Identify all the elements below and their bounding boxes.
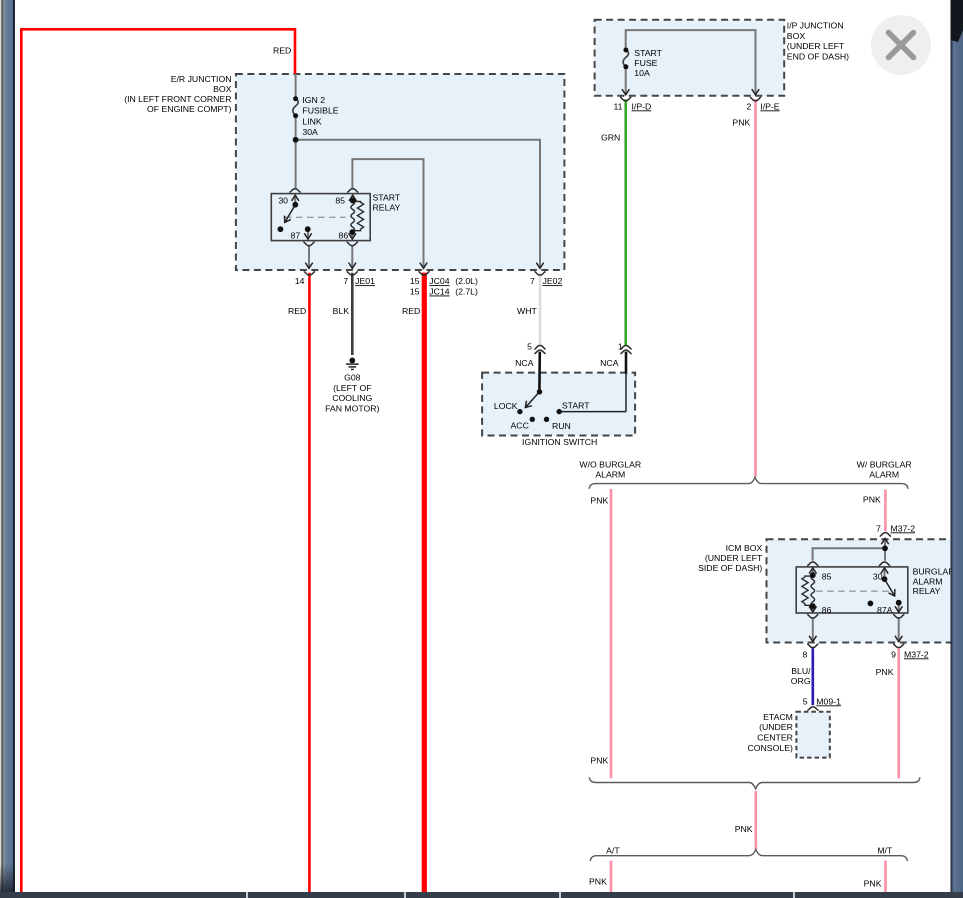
svg-text:85: 85 <box>822 571 832 581</box>
svg-text:W/ BURGLAR: W/ BURGLAR <box>857 460 912 470</box>
svg-text:COOLING: COOLING <box>332 393 372 403</box>
svg-text:ALARM: ALARM <box>913 576 943 586</box>
svg-text:5: 5 <box>803 696 808 706</box>
svg-text:30A: 30A <box>302 127 318 137</box>
svg-text:86: 86 <box>339 230 349 240</box>
svg-text:OF ENGINE COMPT): OF ENGINE COMPT) <box>147 104 232 114</box>
svg-text:M37-2: M37-2 <box>904 649 929 659</box>
svg-text:30: 30 <box>873 571 883 581</box>
svg-text:BOX: BOX <box>213 84 232 94</box>
svg-text:14: 14 <box>295 276 305 286</box>
svg-text:86: 86 <box>822 605 832 615</box>
svg-text:JE01: JE01 <box>355 276 375 286</box>
svg-text:NCA: NCA <box>600 358 619 368</box>
svg-text:(LEFT OF: (LEFT OF <box>333 383 371 393</box>
svg-text:1: 1 <box>618 342 623 352</box>
svg-text:W/O BURGLAR: W/O BURGLAR <box>579 460 641 470</box>
svg-text:30: 30 <box>278 195 288 205</box>
svg-text:RED: RED <box>273 46 291 56</box>
svg-text:BLK: BLK <box>333 306 350 316</box>
svg-text:PNK: PNK <box>864 878 882 888</box>
svg-text:11: 11 <box>613 101 622 111</box>
svg-text:2: 2 <box>746 101 751 111</box>
svg-text:FAN MOTOR): FAN MOTOR) <box>325 404 379 414</box>
svg-text:7: 7 <box>530 276 535 286</box>
svg-text:7: 7 <box>343 276 348 286</box>
svg-text:PNK: PNK <box>590 756 608 766</box>
svg-text:ACC: ACC <box>511 421 529 431</box>
svg-text:BLU/: BLU/ <box>791 666 811 676</box>
svg-text:87A: 87A <box>877 605 893 615</box>
svg-text:START: START <box>562 400 590 410</box>
svg-text:I/P JUNCTION: I/P JUNCTION <box>787 21 844 31</box>
svg-text:RED: RED <box>402 306 420 316</box>
svg-text:LOCK: LOCK <box>494 401 518 411</box>
svg-text:(UNDER LEFT: (UNDER LEFT <box>705 553 763 563</box>
svg-text:8: 8 <box>802 649 807 659</box>
svg-text:RED: RED <box>288 306 306 316</box>
svg-text:M09-1: M09-1 <box>816 696 841 706</box>
svg-text:7: 7 <box>876 523 881 533</box>
svg-text:ALARM: ALARM <box>595 470 625 480</box>
svg-text:CENTER: CENTER <box>757 733 793 743</box>
svg-text:PNK: PNK <box>589 876 607 886</box>
svg-text:PNK: PNK <box>590 496 608 506</box>
svg-text:START: START <box>373 192 401 202</box>
svg-text:M/T: M/T <box>877 845 893 855</box>
svg-text:5: 5 <box>527 342 532 352</box>
svg-text:CONSOLE): CONSOLE) <box>748 743 793 753</box>
svg-text:RELAY: RELAY <box>913 586 941 596</box>
svg-text:IGNITION SWITCH: IGNITION SWITCH <box>522 437 597 447</box>
svg-text:87: 87 <box>291 230 301 240</box>
svg-text:JE02: JE02 <box>543 276 563 286</box>
svg-text:(2.7L): (2.7L) <box>455 287 478 297</box>
svg-text:IGN 2: IGN 2 <box>302 95 325 105</box>
svg-text:(IN LEFT FRONT CORNER: (IN LEFT FRONT CORNER <box>124 94 231 104</box>
svg-text:A/T: A/T <box>606 845 620 855</box>
svg-text:15: 15 <box>410 287 420 297</box>
svg-text:10A: 10A <box>634 68 650 78</box>
svg-text:ETACM: ETACM <box>763 712 793 722</box>
svg-text:PNK: PNK <box>863 495 881 505</box>
svg-text:BURGLAR: BURGLAR <box>913 566 955 576</box>
svg-text:(UNDER LEFT: (UNDER LEFT <box>787 41 845 51</box>
svg-text:(2.0L): (2.0L) <box>455 276 478 286</box>
svg-text:END OF DASH): END OF DASH) <box>787 52 849 62</box>
svg-text:PNK: PNK <box>735 824 753 834</box>
svg-text:RUN: RUN <box>552 421 571 431</box>
svg-text:I/P-D: I/P-D <box>632 101 652 111</box>
svg-text:E/R JUNCTION: E/R JUNCTION <box>171 74 232 84</box>
svg-text:M37-2: M37-2 <box>891 523 916 533</box>
svg-text:ORG: ORG <box>791 676 811 686</box>
svg-text:9: 9 <box>891 649 896 659</box>
svg-text:ALARM: ALARM <box>869 470 899 480</box>
svg-text:RELAY: RELAY <box>373 203 401 213</box>
svg-text:JC14: JC14 <box>429 287 449 297</box>
svg-text:PNK: PNK <box>732 118 750 128</box>
svg-text:START: START <box>634 48 662 58</box>
svg-text:FUSIBLE: FUSIBLE <box>302 106 338 116</box>
svg-text:85: 85 <box>335 195 345 205</box>
svg-text:NCA: NCA <box>515 358 534 368</box>
svg-text:FUSE: FUSE <box>634 58 657 68</box>
svg-text:BOX: BOX <box>787 31 806 41</box>
svg-text:WHT: WHT <box>517 306 537 316</box>
svg-text:SIDE OF DASH): SIDE OF DASH) <box>698 563 762 573</box>
svg-text:I/P-E: I/P-E <box>760 101 780 111</box>
svg-text:(UNDER: (UNDER <box>759 722 793 732</box>
svg-text:ICM BOX: ICM BOX <box>726 543 763 553</box>
svg-text:LINK: LINK <box>302 117 322 127</box>
svg-text:15: 15 <box>410 276 420 286</box>
svg-text:JC04: JC04 <box>429 276 449 286</box>
svg-text:PNK: PNK <box>876 667 894 677</box>
svg-text:G08: G08 <box>344 373 361 383</box>
svg-text:GRN: GRN <box>601 132 620 142</box>
